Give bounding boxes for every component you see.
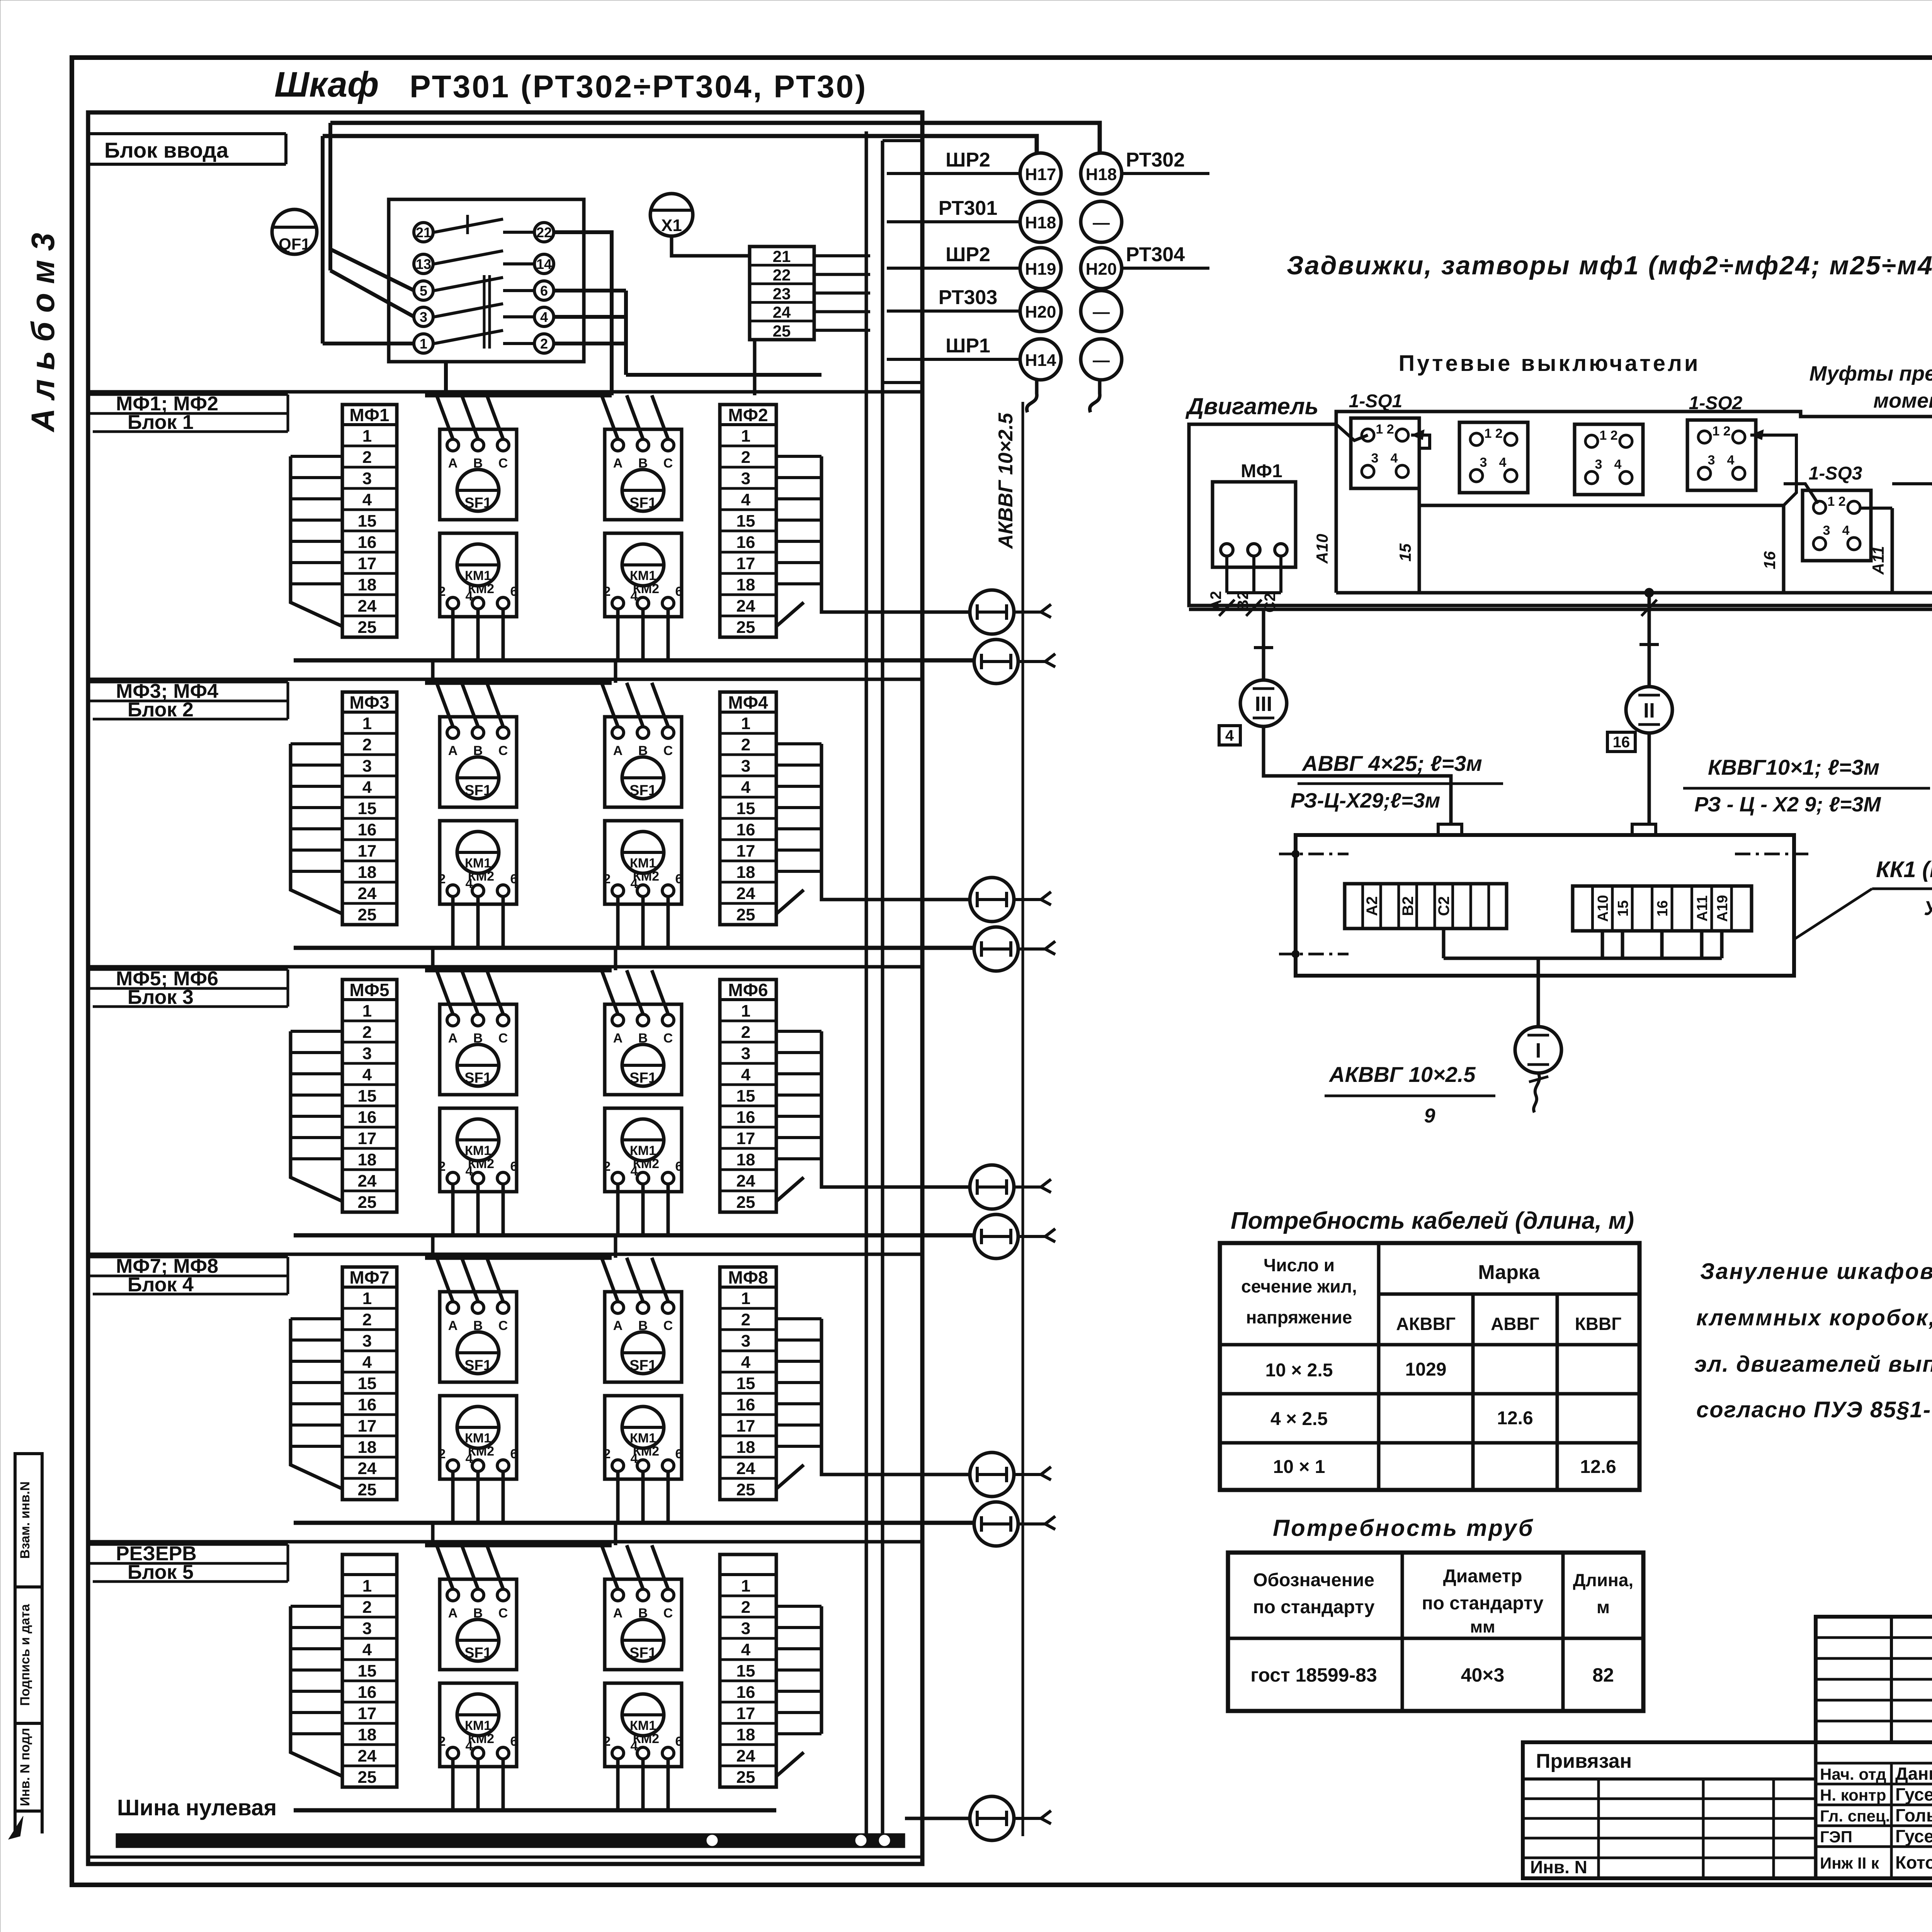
svg-text:24: 24 — [358, 597, 377, 616]
breaker SF1 block 5.1 — [457, 1619, 499, 1661]
section label Блок 3 — [93, 1005, 288, 1008]
wire drop to circle II — [1648, 593, 1651, 634]
svg-text:16: 16 — [736, 1108, 755, 1127]
svg-text:24: 24 — [358, 884, 377, 903]
svg-text:А л ь б о м 3: А л ь б о м 3 — [25, 233, 61, 433]
svg-text:18: 18 — [358, 863, 377, 882]
wire inter-block feed right — [614, 660, 617, 683]
svg-text:4: 4 — [466, 589, 473, 604]
svg-text:Н18: Н18 — [1025, 213, 1056, 232]
cabinet inner bottom line — [88, 1855, 922, 1859]
svg-text:25: 25 — [773, 322, 791, 340]
svg-text:Гольцман: Гольцман — [1895, 1805, 1932, 1825]
svg-text:4: 4 — [1614, 457, 1622, 472]
svg-text:4: 4 — [466, 1739, 473, 1753]
wire X1 to strip — [672, 236, 750, 256]
svg-text:6: 6 — [675, 1734, 683, 1749]
svg-text:22: 22 — [773, 266, 791, 284]
svg-text:1-SQ1: 1-SQ1 — [1349, 391, 1403, 412]
svg-text:2: 2 — [362, 735, 372, 754]
circuit breaker QF1 circle — [272, 209, 317, 254]
section label Блок 5 — [93, 1580, 288, 1583]
svg-text:АКВВГ 10×2.5: АКВВГ 10×2.5 — [995, 412, 1017, 549]
svg-text:SF1: SF1 — [464, 1070, 492, 1086]
lamp circle Н19 — [1020, 248, 1061, 289]
cable tail under circle I — [1534, 1073, 1539, 1112]
svg-text:С: С — [498, 1318, 508, 1333]
terminal strip МФ3 — [342, 692, 397, 925]
svg-text:1 2: 1 2 — [1484, 426, 1502, 441]
svg-text:3: 3 — [362, 757, 372, 776]
starter unit block 2.2 breaker box — [605, 717, 682, 807]
svg-text:9: 9 — [1424, 1105, 1435, 1127]
svg-text:Подпись и дата: Подпись и дата — [18, 1604, 32, 1706]
wire from pole 4 — [554, 315, 626, 319]
svg-text:Обозначение: Обозначение — [1253, 1570, 1374, 1590]
svg-text:Инв. N подл: Инв. N подл — [18, 1728, 32, 1806]
starter unit block 3.2 breaker box — [605, 1004, 682, 1095]
svg-text:24: 24 — [736, 1459, 755, 1478]
svg-text:ГЭП: ГЭП — [1820, 1828, 1852, 1846]
section divider block 3 — [88, 965, 922, 969]
svg-text:15: 15 — [736, 1662, 755, 1680]
terminal strip МФ7 — [342, 1267, 397, 1500]
svg-text:16: 16 — [358, 1108, 377, 1127]
section label МФ7; МФ8 — [88, 1256, 288, 1259]
breaker SF1 block 1.2 — [622, 469, 664, 511]
wire right bracket block 5 — [820, 1606, 823, 1734]
wire from pole 22 to riser — [554, 232, 612, 395]
svg-text:24: 24 — [358, 1172, 377, 1190]
svg-text:15: 15 — [1396, 543, 1414, 561]
svg-text:SF1: SF1 — [464, 782, 492, 799]
svg-text:А: А — [613, 1031, 623, 1046]
svg-text:АКВВГ 10×2.5: АКВВГ 10×2.5 — [1328, 1062, 1476, 1087]
switch pole contact 1-2 — [414, 334, 433, 353]
svg-text:1-SQ2: 1-SQ2 — [1689, 393, 1743, 413]
svg-text:м: м — [1597, 1597, 1610, 1617]
wire to cable marker block 4 — [821, 1446, 970, 1475]
svg-text:А: А — [448, 1318, 458, 1333]
breaker SF1 block 1.1 — [457, 469, 499, 511]
wire top feed to H18 right column — [330, 123, 1100, 153]
svg-text:2: 2 — [741, 448, 750, 467]
svg-text:Потребность труб: Потребность труб — [1273, 1515, 1534, 1541]
svg-text:3: 3 — [362, 1332, 372, 1350]
section divider block 1 — [88, 390, 922, 394]
wire to cable marker block 1 — [821, 584, 970, 612]
svg-text:МФ1: МФ1 — [1241, 461, 1282, 481]
svg-text:Длина,: Длина, — [1573, 1570, 1633, 1590]
svg-text:КМ1: КМ1 — [465, 1143, 491, 1158]
wire unit 3.2 output drops — [616, 1184, 620, 1235]
starter unit block 5.2 contactor box — [605, 1683, 682, 1767]
starter unit block 4.1 breaker box — [440, 1292, 517, 1382]
svg-text:6: 6 — [675, 872, 683, 886]
cable needs table — [1220, 1243, 1639, 1490]
svg-text:10 × 2.5: 10 × 2.5 — [1265, 1360, 1333, 1381]
wire inter-block feed left — [431, 660, 435, 683]
svg-text:РЗ - Ц - Х2 9; ℓ=3М: РЗ - Ц - Х2 9; ℓ=3М — [1694, 793, 1881, 816]
svg-text:ШР1: ШР1 — [946, 335, 990, 357]
wire inter-block feed left — [431, 948, 435, 970]
svg-text:40×3: 40×3 — [1461, 1664, 1505, 1686]
svg-text:1 2: 1 2 — [1376, 422, 1394, 437]
svg-text:13: 13 — [416, 256, 431, 272]
wire top bus block 1 — [425, 393, 612, 398]
starter unit block 3.2 contactor box — [605, 1108, 682, 1192]
wire left bracket block 4 — [289, 1319, 293, 1446]
svg-text:2: 2 — [362, 448, 372, 467]
svg-text:3: 3 — [741, 469, 750, 488]
svg-text:3: 3 — [1708, 453, 1715, 468]
svg-text:РТ304: РТ304 — [1126, 243, 1185, 266]
svg-text:Котова: Котова — [1895, 1852, 1932, 1872]
border crossing ticks — [1219, 600, 1235, 616]
section label Блок 2 — [93, 718, 288, 721]
wire feeds unit 3.2 — [602, 970, 618, 1014]
wire SQ1 pin 2 jog to 15 — [1411, 435, 1430, 505]
wire from pole 6 — [554, 289, 626, 293]
wire feeds unit 4.2 — [602, 1258, 618, 1301]
starter unit block 1.1 contactor box — [440, 533, 517, 617]
svg-text:12.6: 12.6 — [1580, 1457, 1616, 1477]
centerline dash-dot left bottom — [1279, 953, 1349, 956]
starter unit block 2.1 breaker box — [440, 717, 517, 807]
wire to cable marker block 2 — [821, 871, 970, 900]
wire X1 strip bottom drop — [753, 340, 757, 395]
left margin corner arrow — [9, 1816, 23, 1839]
wire feeds unit 4.1 — [437, 1258, 453, 1301]
contactor КМ1/КМ2 block 4.1 — [457, 1406, 499, 1448]
svg-text:3: 3 — [741, 757, 750, 776]
motor enclosure — [1189, 424, 1932, 605]
wire unit 5.1 output drops — [451, 1759, 455, 1810]
svg-text:Н20: Н20 — [1025, 303, 1056, 321]
wire feeds unit 2.2 — [602, 683, 618, 726]
svg-text:16: 16 — [1760, 551, 1779, 569]
svg-text:РТ302: РТ302 — [1126, 149, 1185, 171]
svg-text:25: 25 — [358, 618, 377, 637]
svg-text:18: 18 — [736, 1725, 755, 1744]
lamp circle Н17 — [1020, 153, 1061, 194]
svg-text:4: 4 — [631, 1451, 638, 1466]
svg-text:25: 25 — [358, 1480, 377, 1499]
wire diagonal feed pole 3 — [330, 270, 414, 317]
wire SQ3 pin 2 to А11 — [1861, 507, 1892, 510]
svg-text:1: 1 — [741, 1577, 750, 1595]
svg-text:1 2: 1 2 — [1599, 428, 1617, 443]
svg-text:Инв. N: Инв. N — [1530, 1857, 1587, 1877]
contactor КМ1/КМ2 block 3.1 — [457, 1119, 499, 1161]
svg-text:Нач. отд: Нач. отд — [1820, 1765, 1886, 1783]
wire inter-block feed right — [614, 1235, 617, 1258]
svg-text:3: 3 — [362, 469, 372, 488]
input switch box — [389, 199, 584, 362]
breaker SF1 block 4.2 — [622, 1332, 664, 1374]
wire top bus block 3 — [425, 968, 612, 973]
section label МФ5; МФ6 — [88, 968, 288, 971]
breaker SF1 block 4.1 — [457, 1332, 499, 1374]
svg-text:А10: А10 — [1595, 895, 1611, 922]
svg-text:16: 16 — [736, 820, 755, 839]
svg-text:Блок 3: Блок 3 — [128, 986, 194, 1009]
wire top bus block 5 — [425, 1543, 612, 1548]
starter unit block 2.1 contactor box — [440, 821, 517, 904]
svg-text:1: 1 — [362, 1289, 372, 1308]
cable marker circle pair block 2 — [970, 878, 1014, 922]
null bus bar — [116, 1833, 905, 1848]
svg-text:Н14: Н14 — [1025, 351, 1056, 370]
svg-text:15: 15 — [736, 799, 755, 818]
svg-text:АВВГ 4×25; ℓ=3м: АВВГ 4×25; ℓ=3м — [1301, 751, 1482, 776]
svg-text:согласно ПУЭ 85§1-7-46: согласно ПУЭ 85§1-7-46 — [1696, 1397, 1932, 1422]
svg-text:КК1 (КК2÷ КК42): КК1 (КК2÷ КК42) — [1876, 857, 1932, 882]
svg-text:18: 18 — [736, 575, 755, 594]
svg-text:Шкаф: Шкаф — [274, 65, 379, 104]
svg-text:РТ303: РТ303 — [939, 286, 998, 309]
svg-text:А: А — [613, 456, 623, 471]
svg-text:SF1: SF1 — [629, 495, 656, 511]
svg-text:24: 24 — [773, 303, 791, 321]
svg-text:24: 24 — [358, 1747, 377, 1765]
svg-text:4: 4 — [1842, 523, 1850, 538]
svg-text:16: 16 — [736, 533, 755, 552]
svg-text:15: 15 — [1615, 900, 1631, 917]
svg-text:МФ4: МФ4 — [728, 692, 768, 713]
svg-text:6: 6 — [510, 1734, 518, 1749]
wire КК1 left strip drop — [1442, 929, 1446, 958]
svg-text:1029: 1029 — [1405, 1359, 1447, 1380]
svg-text:4: 4 — [631, 1739, 638, 1753]
wire bottom bus block 3 — [294, 1233, 974, 1238]
svg-text:2: 2 — [604, 1159, 611, 1174]
wire into SQ4 pin 1 — [1892, 484, 1932, 502]
svg-text:С: С — [663, 1031, 673, 1046]
svg-text:ШР2: ШР2 — [946, 243, 990, 266]
svg-text:SF1: SF1 — [464, 1357, 492, 1374]
svg-text:Гусева: Гусева — [1895, 1826, 1932, 1846]
svg-text:17: 17 — [736, 842, 755, 861]
svg-text:1-SQ3: 1-SQ3 — [1809, 463, 1862, 484]
lamp circle right &#8212; — [1081, 291, 1122, 332]
svg-text:SF1: SF1 — [629, 1357, 656, 1374]
wire from pole 2 — [554, 342, 626, 345]
wire inter-block feed left — [431, 1235, 435, 1258]
starter unit block 5.1 breaker box — [440, 1579, 517, 1670]
terminal strip МФ5 — [342, 980, 397, 1212]
svg-text:Данилов: Данилов — [1895, 1764, 1932, 1784]
svg-text:17: 17 — [358, 1417, 377, 1435]
left margin stamp boxes — [15, 1454, 42, 1587]
svg-text:6: 6 — [675, 1447, 683, 1461]
svg-text:1: 1 — [420, 336, 427, 352]
svg-text:18: 18 — [358, 575, 377, 594]
starter unit block 4.1 contactor box — [440, 1396, 517, 1479]
wire inter-block feed right — [614, 948, 617, 970]
svg-text:КМ1: КМ1 — [630, 856, 656, 871]
svg-text:А: А — [613, 1318, 623, 1333]
svg-text:Потребность кабелей (длина,: Потребность кабелей (длина, м) — [1231, 1207, 1634, 1234]
svg-text:Привязан: Привязан — [1536, 1750, 1632, 1772]
svg-text:6: 6 — [510, 1447, 518, 1461]
wire motor drops — [1225, 556, 1228, 593]
svg-text:А: А — [448, 743, 458, 758]
pipe needs table — [1228, 1553, 1643, 1711]
svg-text:1: 1 — [741, 1289, 750, 1308]
terminal strip X1 — [750, 247, 814, 340]
wire X1 row 23 stub — [814, 291, 870, 294]
wire X1 row 24 stub — [814, 310, 870, 313]
svg-text:А: А — [448, 1606, 458, 1621]
contactor КМ1/КМ2 block 1.1 — [457, 544, 499, 586]
lamp circle Н14 — [1020, 339, 1061, 380]
svg-text:1: 1 — [362, 714, 372, 733]
svg-text:4: 4 — [1225, 727, 1234, 744]
svg-text:АВВГ: АВВГ — [1491, 1314, 1539, 1334]
svg-text:КМ1: КМ1 — [465, 856, 491, 871]
svg-text:4: 4 — [741, 778, 751, 797]
breaker SF1 block 3.1 — [457, 1044, 499, 1086]
svg-text:2: 2 — [439, 1734, 446, 1749]
svg-text:18: 18 — [358, 1150, 377, 1169]
svg-text:6: 6 — [540, 283, 548, 299]
svg-text:эл. двигателей выполнить: эл. двигателей выполнить — [1694, 1352, 1932, 1377]
svg-text:—: — — [1093, 213, 1110, 232]
svg-text:18: 18 — [736, 1150, 755, 1169]
svg-text:24: 24 — [736, 597, 755, 616]
svg-text:25: 25 — [736, 1193, 755, 1212]
svg-text:1 2: 1 2 — [1827, 494, 1845, 509]
wire right bracket block 2 — [820, 744, 823, 871]
svg-text:Н19: Н19 — [1025, 260, 1056, 279]
svg-text:Число и: Число и — [1264, 1255, 1335, 1275]
starter unit block 5.2 breaker box — [605, 1579, 682, 1670]
svg-text:18: 18 — [736, 863, 755, 882]
junction box КК1 outline — [1296, 835, 1794, 976]
section divider block 2 — [88, 678, 922, 681]
svg-text:МФ2: МФ2 — [728, 405, 768, 425]
wire top bus block 2 — [425, 681, 612, 685]
svg-text:22: 22 — [536, 224, 552, 240]
svg-text:мм: мм — [1470, 1617, 1495, 1636]
contactor КМ1/КМ2 block 4.2 — [622, 1406, 664, 1448]
cable marker circle null bus — [970, 1796, 1014, 1840]
wire QF1 left vertical feed — [321, 136, 325, 344]
svg-text:3: 3 — [420, 309, 427, 325]
stamp names grid — [1816, 1762, 1932, 1765]
wire to cable marker block 3 — [821, 1159, 970, 1187]
svg-text:4: 4 — [362, 1640, 372, 1659]
svg-text:3: 3 — [1595, 457, 1602, 472]
svg-text:4: 4 — [1727, 453, 1735, 468]
cable circle I — [1515, 1027, 1561, 1073]
tag box 4 — [1219, 726, 1240, 745]
section label Блок 4 — [93, 1293, 288, 1296]
svg-text:А11: А11 — [1869, 546, 1887, 575]
starter unit block 4.2 contactor box — [605, 1396, 682, 1479]
svg-text:17: 17 — [358, 554, 377, 573]
svg-text:2: 2 — [362, 1310, 372, 1329]
wire unit 3.1 output drops — [451, 1184, 455, 1235]
wire bottom bus block 1 — [294, 658, 974, 663]
svg-text:3: 3 — [1823, 523, 1830, 538]
svg-text:С: С — [663, 456, 673, 471]
svg-text:МФ5: МФ5 — [349, 980, 389, 1000]
cable riser line — [1022, 402, 1024, 1836]
wire unit 5.2 output drops — [616, 1759, 620, 1810]
svg-text:17: 17 — [358, 1129, 377, 1148]
wire feeds unit 3.1 — [437, 970, 453, 1014]
wire drop to circle III — [1262, 609, 1265, 638]
svg-text:15: 15 — [358, 1374, 377, 1393]
svg-text:17: 17 — [358, 1704, 377, 1723]
svg-text:SF1: SF1 — [464, 1645, 492, 1661]
svg-text:4 × 2.5: 4 × 2.5 — [1270, 1409, 1328, 1429]
limit switch enclosure — [1336, 412, 1932, 605]
svg-text:С: С — [663, 743, 673, 758]
svg-text:РЗ-Ц-Х29;ℓ=3м: РЗ-Ц-Х29;ℓ=3м — [1291, 789, 1440, 812]
svg-text:4: 4 — [631, 876, 638, 891]
svg-text:гост 18599-83: гост 18599-83 — [1250, 1664, 1377, 1686]
wire unit 2.2 output drops — [616, 896, 620, 948]
svg-text:по стандарту: по стандарту — [1422, 1593, 1544, 1614]
svg-text:2: 2 — [604, 1447, 611, 1461]
svg-text:А19: А19 — [1714, 895, 1731, 922]
svg-text:24: 24 — [736, 1747, 755, 1765]
breaker SF1 block 2.2 — [622, 757, 664, 799]
svg-text:4: 4 — [631, 589, 638, 604]
svg-text:25: 25 — [736, 618, 755, 637]
junction box cable tabs — [1438, 824, 1462, 835]
svg-text:А: А — [613, 1606, 623, 1621]
wire long link to SQ2 — [1419, 504, 1784, 507]
cable marker circle pair block 1 — [970, 590, 1014, 634]
svg-text:SF1: SF1 — [629, 1070, 656, 1086]
svg-text:16: 16 — [358, 1683, 377, 1702]
svg-text:2: 2 — [362, 1598, 372, 1617]
wire feeds unit 1.1 — [437, 395, 453, 439]
svg-text:С: С — [498, 456, 508, 471]
svg-text:МФ7: МФ7 — [349, 1267, 389, 1287]
svg-text:4: 4 — [466, 1451, 473, 1466]
svg-text:III: III — [1255, 692, 1272, 716]
svg-text:25: 25 — [358, 1768, 377, 1787]
svg-text:QF1: QF1 — [279, 235, 310, 253]
wire X1 row 25 stub — [814, 329, 870, 332]
cable marker circle pair block 3 — [970, 1165, 1014, 1209]
svg-text:1: 1 — [362, 427, 372, 446]
svg-text:3: 3 — [362, 1044, 372, 1063]
svg-text:А2: А2 — [1364, 896, 1381, 916]
centerline dash-dot left top — [1279, 853, 1349, 855]
wire X1 row 21 stub — [814, 254, 870, 257]
svg-text:6: 6 — [510, 872, 518, 886]
svg-text:16: 16 — [358, 820, 377, 839]
wire КК1 internal bus — [1444, 957, 1722, 960]
starter unit block 1.2 contactor box — [605, 533, 682, 617]
svg-text:МФ1: МФ1 — [349, 405, 389, 425]
svg-text:У615: У615 — [1924, 897, 1932, 920]
starter unit block 1.1 breaker box — [440, 429, 517, 520]
svg-text:2: 2 — [604, 872, 611, 886]
terminal strip МФ1 — [342, 405, 397, 637]
svg-text:4: 4 — [362, 1065, 372, 1084]
wire right bracket block 1 — [820, 456, 823, 584]
svg-text:Н17: Н17 — [1025, 165, 1056, 184]
svg-text:15: 15 — [736, 1087, 755, 1105]
starter unit block 3.1 breaker box — [440, 1004, 517, 1095]
